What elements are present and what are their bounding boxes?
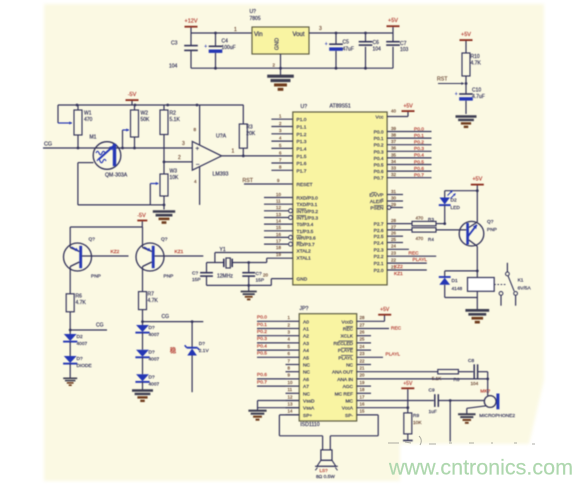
svg-text:KZ2: KZ2 — [111, 249, 120, 255]
capacitor C9 1uF — [434, 394, 436, 407]
svg-text:100uF: 100uF — [222, 45, 236, 51]
svg-text:31: 31 — [391, 189, 396, 194]
svg-text:PNP: PNP — [164, 274, 174, 280]
power +5V — [387, 25, 400, 27]
power -5V — [126, 99, 139, 101]
LED D2 — [444, 191, 446, 198]
wire collector — [476, 246, 478, 271]
pin 21 wire ANA OUT / R8 C8 — [357, 371, 438, 373]
svg-text:15P: 15P — [256, 277, 265, 283]
svg-text:33: 33 — [391, 166, 396, 171]
svg-text:26: 26 — [360, 330, 365, 335]
svg-text:D2: D2 — [77, 334, 83, 340]
svg-text:104: 104 — [471, 381, 479, 386]
svg-text:U?A: U?A — [216, 134, 227, 140]
svg-text:30: 30 — [391, 195, 396, 200]
pin 6 A5 — [286, 356, 300, 358]
svg-text:D?: D? — [77, 356, 83, 362]
pin 30 ALE/P — [387, 200, 403, 202]
svg-text:www.cntronics.com: www.cntronics.com — [388, 456, 573, 480]
svg-text:INT1/P3.3: INT1/P3.3 — [297, 216, 319, 222]
svg-text:P2.4: P2.4 — [374, 241, 384, 247]
op-amp U?A LM393 — [192, 142, 221, 171]
transistor Q? PNP right — [136, 243, 164, 271]
diode D? DIODE — [64, 356, 77, 363]
svg-text:M1: M1 — [90, 135, 97, 141]
svg-text:27: 27 — [391, 224, 396, 229]
svg-text:34: 34 — [391, 159, 396, 164]
wire XTAL2 — [215, 252, 293, 254]
svg-text:4007: 4007 — [77, 341, 88, 347]
svg-text:R10: R10 — [471, 54, 480, 60]
svg-text:6V/5A: 6V/5A — [518, 286, 532, 292]
svg-text:40: 40 — [391, 108, 396, 113]
pin 8 NC — [286, 371, 300, 373]
svg-text:KZ1: KZ1 — [175, 249, 184, 255]
svg-text:DIODE: DIODE — [77, 363, 92, 369]
svg-text:1: 1 — [232, 148, 235, 154]
svg-text:VccA: VccA — [342, 406, 354, 412]
resistor R9 10K — [407, 408, 409, 413]
svg-text:+: + — [325, 42, 328, 48]
ground — [153, 210, 175, 213]
svg-text:NC: NC — [303, 391, 310, 397]
pin 9 A6 — [286, 378, 300, 380]
pin 15 T1/P3.5 — [264, 230, 293, 232]
svg-text:P1.6: P1.6 — [297, 161, 307, 167]
svg-text:20K: 20K — [246, 131, 256, 137]
svg-text:Vcc: Vcc — [376, 115, 385, 121]
svg-text:REC: REC — [391, 326, 402, 332]
pin 39 P0.0 — [387, 131, 431, 133]
svg-text:1uF: 1uF — [429, 409, 437, 415]
svg-text:+5V: +5V — [388, 18, 398, 24]
svg-text:50K: 50K — [141, 117, 151, 123]
op-amp power pin 8 — [199, 105, 201, 145]
pin 11 TXD/P3.1 — [264, 203, 293, 205]
svg-text:MK?: MK? — [480, 388, 490, 394]
pin 12 wire VssD to ground — [258, 400, 300, 402]
svg-text:104: 104 — [169, 64, 178, 70]
svg-text:C8: C8 — [468, 358, 474, 364]
svg-text:RST: RST — [437, 77, 448, 83]
svg-text:ALE/P: ALE/P — [370, 199, 384, 205]
voice chip JP? ISD1110 — [299, 314, 357, 421]
svg-text:+5V: +5V — [403, 381, 413, 387]
svg-text:2: 2 — [178, 155, 181, 161]
svg-text:AGC: AGC — [343, 384, 354, 390]
svg-text:C10: C10 — [472, 88, 481, 94]
svg-text:A6: A6 — [303, 377, 309, 383]
svg-text:A0: A0 — [303, 319, 309, 325]
svg-text:JP?: JP? — [300, 306, 309, 312]
svg-text:29: 29 — [391, 202, 396, 207]
wire top rail — [58, 104, 244, 106]
svg-text:7805: 7805 — [250, 16, 261, 22]
resistor R10 4.7K — [462, 53, 470, 76]
diode D? 4007 c — [136, 374, 149, 381]
svg-text:D1: D1 — [452, 278, 458, 284]
pin 26 stub — [387, 235, 403, 237]
svg-text:LED: LED — [451, 205, 461, 211]
svg-text:C?: C? — [256, 271, 262, 277]
pin 12 INT0/P3.2 — [264, 210, 289, 212]
pin 24 REC — [387, 248, 409, 250]
pin 16 WR/P3.6 — [264, 236, 289, 238]
svg-text:-5V: -5V — [128, 92, 137, 98]
pin 2 A1 — [286, 328, 300, 330]
svg-text:+5V: +5V — [472, 177, 482, 183]
svg-text:28: 28 — [360, 315, 365, 320]
pin 23 wire PLAYL — [357, 356, 383, 358]
capacitor C8 104 — [473, 364, 475, 379]
svg-text:26: 26 — [391, 231, 396, 236]
svg-text:W3: W3 — [170, 169, 178, 175]
svg-text:5.1K: 5.1K — [170, 117, 181, 123]
wire feedback loop — [78, 162, 94, 164]
svg-text:15: 15 — [276, 225, 281, 230]
svg-text:23: 23 — [360, 351, 365, 356]
net label P0.7 — [257, 385, 286, 387]
svg-text:PLAYL: PLAYL — [338, 355, 353, 361]
svg-text:ISD1110: ISD1110 — [300, 422, 320, 428]
svg-text:10: 10 — [276, 192, 281, 197]
switch K1 6V/5A — [494, 284, 507, 286]
svg-text:C3: C3 — [171, 41, 178, 47]
svg-text:15: 15 — [360, 409, 365, 414]
svg-text:P1.3: P1.3 — [297, 139, 307, 145]
svg-text:P0.5: P0.5 — [257, 351, 267, 357]
svg-text:MC: MC — [346, 399, 354, 405]
svg-text:P1.4: P1.4 — [297, 146, 307, 152]
svg-text:17: 17 — [276, 239, 281, 244]
svg-text:A7: A7 — [303, 384, 309, 390]
pin 38 P0.1 — [387, 137, 431, 139]
svg-text:35: 35 — [391, 152, 396, 157]
svg-text:C6: C6 — [373, 40, 380, 46]
net label P0.3 — [257, 342, 286, 344]
svg-text:RECLED: RECLED — [334, 341, 354, 347]
svg-text:QM-303A: QM-303A — [105, 173, 128, 179]
pin 28 wire to +5V — [357, 320, 385, 322]
svg-text:P0.6: P0.6 — [374, 169, 384, 175]
wire — [449, 401, 451, 442]
pin 33 P0.6 — [387, 170, 431, 172]
svg-text:PNP: PNP — [91, 274, 101, 280]
svg-text:KZ2: KZ2 — [394, 264, 403, 270]
svg-text:P0.5: P0.5 — [414, 159, 424, 165]
wire ground rail — [207, 284, 272, 286]
pin 3 P1.2 — [271, 133, 292, 135]
net label P0.0 — [257, 320, 286, 322]
svg-text:+: + — [455, 92, 458, 98]
pin 13 wire VssA — [258, 407, 300, 409]
svg-text:20: 20 — [360, 373, 365, 378]
potentiometer W2 50K — [134, 105, 136, 110]
svg-text:16: 16 — [360, 402, 365, 407]
svg-text:4.7K: 4.7K — [148, 298, 159, 304]
capacitor C5 47uF — [335, 32, 338, 35]
power +5V — [402, 110, 415, 112]
pin 13 VssA — [286, 407, 300, 409]
svg-text:RESET: RESET — [297, 182, 313, 188]
svg-text:WR/P3.6: WR/P3.6 — [297, 235, 317, 241]
svg-text:P0.1: P0.1 — [414, 133, 424, 139]
svg-text:17: 17 — [360, 394, 365, 399]
svg-text:+5V: +5V — [461, 32, 471, 38]
pin 8 P1.7 — [271, 169, 292, 171]
potentiometer W3 10K — [150, 183, 158, 185]
pin 5 P1.4 — [271, 147, 292, 149]
svg-text:Q?: Q? — [487, 219, 494, 225]
svg-text:P0.0: P0.0 — [414, 126, 424, 132]
wire op-amp minus input — [163, 161, 166, 164]
wire — [309, 32, 393, 34]
svg-text:4007: 4007 — [149, 381, 160, 387]
svg-text:R9: R9 — [413, 413, 419, 419]
pin 36 P0.3 — [387, 150, 431, 152]
wire pin20 to ground — [271, 278, 293, 280]
power +5V — [460, 39, 473, 41]
ground — [63, 377, 77, 379]
svg-text:12MHz: 12MHz — [217, 273, 233, 279]
svg-text:RXD/P3.0: RXD/P3.0 — [297, 196, 319, 202]
svg-text:10K: 10K — [413, 420, 422, 426]
pin 21 KZ1 — [387, 269, 427, 271]
wire XTAL1 — [267, 257, 293, 259]
svg-text:P0.3: P0.3 — [414, 146, 424, 152]
resistor R7 4.7K — [139, 292, 147, 310]
svg-text:P0.7: P0.7 — [374, 176, 384, 182]
svg-text:P0.2: P0.2 — [414, 140, 424, 146]
pin 7 P1.6 — [271, 162, 292, 164]
wire -5V rail — [70, 226, 142, 228]
svg-text:22: 22 — [360, 358, 365, 363]
wire — [191, 32, 252, 34]
transistor Q? PNP left — [64, 243, 92, 271]
svg-text:32: 32 — [391, 172, 396, 177]
net label P0.2 — [257, 335, 286, 337]
svg-text:14: 14 — [288, 409, 293, 414]
pin 22 KZ2 — [387, 262, 427, 264]
pin 35 P0.4 — [387, 157, 431, 159]
svg-text:39: 39 — [391, 126, 396, 131]
svg-text:4148: 4148 — [452, 286, 463, 292]
svg-text:12: 12 — [288, 394, 293, 399]
torn paper edge marks — [388, 436, 535, 445]
resistor R3 470 (LED) — [412, 221, 436, 225]
pin 37 P0.2 — [387, 144, 431, 146]
resistor R3 20K — [242, 105, 244, 124]
svg-text:P0.4: P0.4 — [374, 156, 384, 162]
svg-text:D?: D? — [149, 325, 155, 331]
svg-text:+: + — [204, 44, 207, 50]
relay coil — [468, 278, 495, 292]
pin 32 P0.7 — [387, 177, 431, 179]
wire KZ2 base — [82, 255, 128, 257]
regulator U? 7805 — [252, 27, 309, 54]
pin 17 wire MC / C9 — [357, 400, 434, 402]
pin 5 A4 — [286, 349, 300, 351]
svg-text:P0.6: P0.6 — [257, 372, 267, 378]
svg-text:A2: A2 — [303, 334, 309, 340]
svg-text:T0/P3.4: T0/P3.4 — [297, 222, 314, 228]
ground — [456, 115, 477, 117]
svg-text:16: 16 — [276, 232, 281, 237]
svg-text:CG: CG — [96, 323, 104, 329]
svg-text:R7: R7 — [148, 292, 155, 298]
svg-text:38: 38 — [391, 133, 396, 138]
svg-text:RST: RST — [243, 178, 254, 184]
svg-text:P0.4: P0.4 — [414, 153, 424, 159]
pin 20 wire ANA IN — [357, 378, 488, 380]
svg-text:GND: GND — [297, 277, 308, 283]
svg-text:R4: R4 — [428, 237, 434, 242]
pin 31 EA/VP — [387, 194, 403, 196]
pin 4 A3 — [286, 342, 300, 344]
svg-text:-5V: -5V — [137, 213, 146, 219]
svg-text:1: 1 — [234, 27, 237, 33]
svg-text:+12V: +12V — [185, 19, 198, 25]
svg-text:4.7K: 4.7K — [471, 61, 482, 67]
svg-text:GND: GND — [275, 38, 281, 50]
svg-text:10: 10 — [288, 380, 293, 385]
svg-text:LM393: LM393 — [213, 172, 229, 178]
svg-text:15P: 15P — [192, 277, 201, 283]
svg-text:28: 28 — [391, 218, 396, 223]
svg-text:U?: U? — [301, 104, 308, 110]
capacitor C10 4.7uF — [459, 93, 473, 95]
wire SP+ to speaker — [279, 414, 299, 416]
resistor R6 4.7K — [66, 294, 74, 312]
svg-text:P0.7: P0.7 — [257, 379, 267, 385]
crystal Y1 12MHz — [207, 262, 224, 264]
wire mic ground — [467, 406, 486, 409]
svg-text:12: 12 — [276, 205, 281, 210]
svg-text:KZ1: KZ1 — [394, 271, 403, 277]
svg-text:P0.7: P0.7 — [414, 173, 424, 179]
svg-text:+5V: +5V — [380, 307, 390, 313]
svg-text:SP-: SP- — [345, 413, 353, 419]
pin 7 NC — [286, 364, 300, 366]
capacitor C6 104 — [364, 32, 367, 35]
svg-text:14: 14 — [276, 219, 281, 224]
capacitor C7 103 — [392, 33, 394, 42]
power +5V — [471, 184, 484, 186]
ground — [132, 389, 153, 391]
gas sensor M1 QM-303A — [93, 142, 121, 170]
svg-text:4.7uF: 4.7uF — [472, 94, 485, 100]
wire bottom rail — [191, 67, 393, 69]
svg-text:NC: NC — [346, 363, 353, 369]
svg-text:PNP: PNP — [487, 227, 497, 233]
svg-text:18: 18 — [360, 387, 365, 392]
capacitor C? 15P left — [206, 263, 208, 273]
svg-text:P2.0: P2.0 — [374, 268, 384, 274]
potentiometer W1 470 — [57, 105, 59, 123]
svg-text:D?: D? — [149, 374, 155, 380]
net label P0.6 — [257, 378, 286, 380]
svg-text:10K: 10K — [170, 175, 180, 181]
node CG — [69, 329, 72, 332]
pin 27 wire REC — [357, 328, 389, 330]
svg-text:Y1: Y1 — [220, 247, 226, 253]
svg-text:REC: REC — [409, 250, 420, 256]
diode D2 4007 — [64, 334, 77, 341]
zener D? 2.1V — [191, 320, 194, 323]
power +12V — [185, 26, 198, 28]
svg-text:Q?: Q? — [161, 237, 168, 243]
svg-text:P1.7: P1.7 — [297, 168, 307, 174]
svg-text:+5V: +5V — [403, 103, 413, 109]
svg-text:Vin: Vin — [254, 32, 263, 38]
svg-text:W2: W2 — [141, 111, 149, 117]
wire — [445, 190, 478, 192]
svg-text:47uF: 47uF — [343, 47, 354, 53]
svg-text:K1: K1 — [518, 278, 524, 284]
svg-text:EA/VP: EA/VP — [369, 193, 383, 199]
svg-text:D2: D2 — [451, 198, 457, 204]
svg-text:25: 25 — [360, 337, 365, 342]
ground — [458, 413, 476, 415]
svg-text:CG: CG — [162, 314, 170, 320]
svg-text:CG: CG — [44, 142, 52, 148]
svg-text:NC: NC — [303, 370, 310, 376]
svg-text:P2.5: P2.5 — [374, 234, 384, 240]
svg-text:3: 3 — [182, 141, 185, 147]
svg-text:A3: A3 — [303, 341, 309, 347]
svg-text:XTAL2: XTAL2 — [297, 249, 312, 255]
svg-text:P2.7: P2.7 — [374, 222, 384, 228]
svg-text:P0.5: P0.5 — [374, 163, 384, 169]
svg-text:T1/P3.5: T1/P3.5 — [297, 229, 314, 235]
pin 16 wire VccA to +5V / R9 — [357, 407, 408, 409]
microphone MK? MICROPHONE2 — [484, 396, 496, 408]
svg-text:8: 8 — [194, 127, 197, 132]
svg-text:C5: C5 — [343, 40, 350, 46]
resistor R2 5.1K — [163, 105, 165, 110]
svg-text:A1: A1 — [303, 327, 309, 333]
svg-text:VssD: VssD — [303, 399, 315, 405]
wire SP- to speaker — [357, 414, 379, 416]
capacitor C4 100uF — [214, 32, 217, 35]
svg-text:INT0/P3.2: INT0/P3.2 — [297, 209, 319, 215]
svg-text:4007: 4007 — [149, 332, 160, 338]
wire KZ1 base — [155, 255, 204, 257]
svg-text:P0.2: P0.2 — [374, 143, 384, 149]
svg-text:C4: C4 — [222, 39, 229, 45]
MCU U? AT89S51 — [293, 112, 387, 285]
svg-text:PSEN: PSEN — [370, 206, 384, 212]
pin 2 P1.1 — [271, 126, 292, 128]
wire — [445, 297, 478, 299]
svg-text:23: 23 — [391, 251, 396, 256]
pin 28 wire to R3 — [387, 223, 412, 225]
svg-text:P1.2: P1.2 — [297, 132, 307, 138]
svg-text:PLAYL: PLAYL — [386, 352, 401, 358]
svg-text:R2: R2 — [170, 111, 177, 117]
capacitor C3 — [190, 33, 192, 45]
net label P0.5 — [257, 356, 286, 358]
pin 25 stub — [387, 242, 403, 244]
svg-text:ANA IN: ANA IN — [337, 377, 353, 383]
svg-text:PLAYE: PLAYE — [338, 348, 353, 354]
resistor R4 470 (base) — [412, 228, 436, 232]
svg-text:P1.1: P1.1 — [297, 125, 307, 131]
pin 4 P1.3 — [271, 140, 292, 142]
svg-text:A5: A5 — [303, 355, 309, 361]
pin 1 A0 — [286, 320, 300, 322]
